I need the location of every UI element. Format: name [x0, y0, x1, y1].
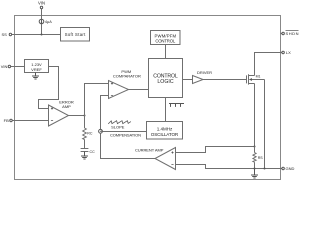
svg-text:COMPENSATION: COMPENSATION — [110, 133, 141, 138]
wire error amp output — [69, 115, 85, 117]
svg-text:FB: FB — [4, 118, 9, 123]
capacitor CC — [81, 149, 95, 155]
wire driver to gate of M1 — [203, 79, 247, 81]
wire M1 drain up to LX — [255, 53, 283, 76]
IC boundary box — [15, 16, 281, 180]
svg-text:VREF: VREF — [31, 67, 42, 72]
wire current source to SS line — [41, 24, 43, 35]
label SLOPE COMPENSATION — [110, 124, 141, 137]
wire VIN to VREF — [11, 66, 25, 68]
clock comb symbol — [169, 104, 184, 107]
svg-text:VIN: VIN — [1, 64, 8, 69]
pin VIN (top) — [38, 1, 45, 9]
svg-text:CC: CC — [90, 150, 96, 154]
node bulk/GND junction — [264, 168, 266, 170]
resistor RS — [253, 147, 263, 169]
wire FB to error amp - input — [12, 120, 48, 122]
wire current amp - input to GND rail — [176, 165, 283, 169]
summing node — [99, 129, 103, 133]
svg-text:DRIVER: DRIVER — [197, 70, 212, 75]
svg-text:Soft Start: Soft Start — [65, 32, 86, 37]
oscillator block — [147, 122, 183, 140]
node error amp output junction — [84, 115, 86, 117]
wire VREF to error amp + input — [39, 67, 59, 109]
soft-start block — [61, 28, 90, 42]
svg-text:RS: RS — [258, 156, 264, 160]
resistor RC — [83, 128, 93, 140]
wire PWM/PFM to control logic — [165, 45, 167, 59]
svg-text:OSCILLATOR: OSCILLATOR — [151, 132, 179, 137]
pin LX — [282, 50, 291, 55]
ground under VREF — [32, 73, 39, 80]
wire junction down to RC — [84, 116, 86, 129]
wire control logic to oscillator — [165, 98, 167, 122]
pin GND — [282, 166, 295, 171]
wire M1 source down to RS — [254, 84, 256, 147]
svg-text:SLOPE: SLOPE — [111, 124, 125, 129]
wire slope compensation to summing node — [102, 131, 146, 133]
wire RC to CC — [84, 140, 86, 149]
wire M1 bulk down to GND rail — [264, 80, 266, 169]
svg-text:LX: LX — [286, 50, 291, 55]
svg-text:4μA: 4μA — [45, 20, 52, 24]
svg-text:GND: GND — [286, 166, 295, 171]
svg-text:CONTROL: CONTROL — [155, 38, 176, 43]
transistor M1 — [247, 74, 265, 84]
svg-text:AMP: AMP — [62, 104, 71, 109]
svg-text:SHDN: SHDN — [286, 31, 299, 36]
wire junction up to PWM comparator + input — [85, 84, 109, 116]
svg-text:M1: M1 — [256, 75, 261, 79]
wire PWM comparator - input from summing node — [101, 96, 109, 130]
buffer driver — [193, 70, 213, 83]
comparator PWM — [109, 69, 142, 98]
PWM/PFM control block — [151, 31, 181, 45]
pin SHDN — [281, 31, 299, 37]
ground on GND rail — [251, 169, 258, 179]
svg-text:COMPARATOR: COMPARATOR — [113, 74, 141, 79]
wire SS to Soft Start — [12, 34, 61, 36]
pin VIN (left) — [1, 64, 11, 69]
node RS top junction — [254, 146, 256, 148]
svg-text:VIN: VIN — [38, 1, 45, 6]
node SS/4uA junction — [41, 34, 43, 36]
wire control logic to driver — [183, 79, 193, 81]
ground under CC — [81, 152, 88, 160]
pin SS — [1, 32, 11, 37]
svg-text:SS: SS — [1, 32, 7, 37]
current source 4uA — [39, 19, 52, 24]
pin FB — [4, 118, 13, 123]
svg-text:CURRENT AMP: CURRENT AMP — [135, 148, 164, 153]
wire current amp + input to RS top — [176, 147, 255, 153]
wire summing node down to current amp output — [101, 133, 156, 158]
wire VIN to current source — [41, 9, 43, 19]
svg-text:RC: RC — [87, 132, 93, 136]
control logic block — [149, 59, 183, 98]
wire PWM comparator output to control logic — [129, 89, 149, 91]
op-amp error amplifier — [49, 99, 74, 126]
node RS bottom junction — [254, 168, 256, 170]
svg-text:LOGIC: LOGIC — [157, 79, 173, 85]
sawtooth symbol slope compensation — [108, 121, 131, 124]
op-amp current amplifier — [135, 148, 176, 170]
voltage reference VREF — [25, 60, 49, 73]
